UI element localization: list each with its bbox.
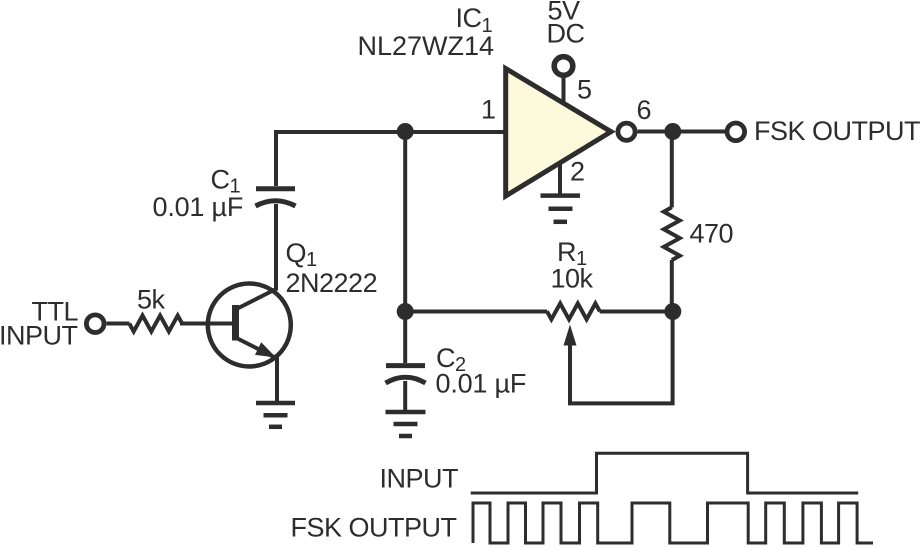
svg-text:2N2222: 2N2222 [286,268,378,298]
svg-text:5: 5 [577,75,592,105]
wire R1 left lead [405,310,547,314]
svg-text:5k: 5k [137,285,166,315]
svg-text:NL27WZ14: NL27WZ14 [358,31,495,61]
waveform INPUT trace [471,453,859,493]
label 5V DC [547,0,585,49]
wiper arrow of R1 [564,312,673,404]
svg-text:0.01 µF: 0.01 µF [153,192,244,222]
label TTL INPUT [0,297,78,351]
terminal TTL input [86,315,104,333]
capacitor C1 [256,189,296,206]
wire C1 bottom lead / Q1 collector lead [274,204,278,290]
svg-text:2: 2 [570,157,585,187]
label C1 value [153,165,244,223]
svg-text:DC: DC [547,19,585,49]
node junction R1 right [664,303,681,320]
svg-text:FSK OUTPUT: FSK OUTPUT [290,513,456,543]
svg-text:INPUT: INPUT [380,464,459,494]
terminal 5V DC pin 5 [554,57,573,76]
svg-text:1: 1 [481,95,496,125]
op-amp U1 inverter triangle IC1 [506,69,611,197]
wire 470 bottom lead [670,260,674,312]
label R1 [551,237,594,294]
inverter output bubble [618,123,635,140]
node output junction [664,123,681,140]
svg-text:0.01 µF: 0.01 µF [436,369,527,399]
wire top net: C1 top lead to inverter input [276,132,506,186]
svg-text:INPUT: INPUT [0,321,78,351]
wire R1 right lead [600,310,672,314]
wire Q1 emitter lead [275,357,279,401]
wire pin 2 stub [558,163,562,196]
wire output to FSK terminal [638,130,727,134]
resistor R1 potentiometer [547,303,600,319]
capacitor C2 [386,366,426,383]
terminal FSK output [727,123,745,141]
wire C2 top lead [403,312,407,364]
ground pin 2 [541,196,581,222]
node junction R1 left [397,303,414,320]
wire pin 5 stub [562,77,566,105]
wire 5k to Q1 base [180,322,233,326]
resistor 5k [129,316,182,332]
svg-text:6: 6 [637,95,652,125]
wire C2 bottom lead [403,381,407,410]
resistor 470 [664,207,680,260]
ground C2 [386,412,426,436]
svg-text:10k: 10k [551,264,594,294]
svg-text:FSK OUTPUT: FSK OUTPUT [754,116,920,146]
label Q1 [286,238,378,298]
label IC1 [358,3,495,61]
ground Q1 emitter [256,403,295,427]
wire TTL terminal to 5k [107,322,130,326]
wire vertical from top net to R1 net [403,132,407,312]
node junction top-left [397,123,414,140]
label C2 value [436,343,527,399]
waveform FSK OUTPUT trace [473,503,873,543]
wire 470 top lead [670,132,674,208]
svg-text:470: 470 [690,219,734,249]
transistor Q1 [208,284,291,367]
